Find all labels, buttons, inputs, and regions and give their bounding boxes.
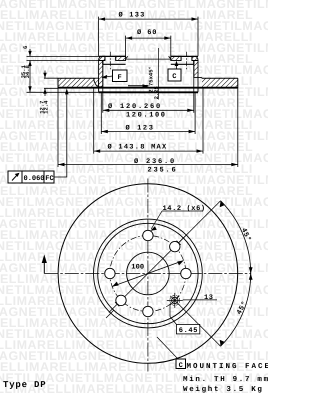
note [C] MOUNTING FACE: [176, 359, 271, 371]
svg-text:12.4: 12.4: [43, 100, 50, 114]
angular dimension arc with 45deg labels: [220, 201, 253, 346]
bolt hole 45deg: [170, 241, 180, 251]
svg-text:FC: FC: [45, 175, 53, 183]
svg-text:Ø 236.0: Ø 236.0: [134, 158, 176, 166]
friction band bottom / interior floor line: [58, 87, 238, 89]
svg-text:14.2 (x6): 14.2 (x6): [163, 204, 206, 213]
svg-text:Type DP: Type DP: [3, 380, 46, 390]
drum outer edges: [99, 77, 198, 92]
hat circle Ø133: [98, 223, 198, 323]
svg-text:Min. TH 9.7 mm: Min. TH 9.7 mm: [183, 375, 268, 384]
bolt hole 180deg: [105, 268, 115, 278]
friction band left (hatched): [58, 78, 94, 88]
bore circle Ø60: [127, 252, 170, 295]
svg-text:235.6: 235.6: [148, 166, 178, 174]
hat wall right (hatched) + shelf: [194, 61, 202, 79]
dimension 6 (flange thickness): [22, 46, 99, 67]
diagonal 45deg dimension line through holes with arrows: [109, 235, 187, 313]
bolt hole edges in flange: [105, 56, 192, 60]
svg-text:100: 100: [131, 263, 144, 271]
vertical centerline: [147, 179, 149, 372]
dimension Ø236.0/235.6: [58, 158, 238, 174]
svg-text:C: C: [172, 73, 177, 81]
svg-text:Ø 133: Ø 133: [119, 12, 146, 20]
mounting flange left (hatched): [99, 56, 126, 60]
dimension 12.7/12.4 (disc thickness): [39, 71, 58, 114]
drum bottom lip: [99, 91, 198, 93]
mounting flange right (hatched): [171, 56, 198, 60]
radial extension -45deg: [179, 304, 221, 346]
svg-text:Ø 120.260: Ø 120.260: [108, 103, 162, 111]
svg-text:Ø 123: Ø 123: [126, 124, 155, 132]
extension lines down from section: [103, 64, 194, 113]
svg-text:F: F: [118, 74, 123, 82]
bolt hole 270deg: [143, 306, 153, 316]
datum box F: [101, 70, 127, 82]
bore chamfer bottom line: [126, 58, 171, 60]
chamfer dimension 2.75x45 / 2.25: [128, 48, 160, 100]
horizontal centerline: [44, 273, 251, 275]
svg-text:13: 13: [204, 294, 214, 302]
datum box C: [168, 61, 181, 82]
bolt hole centerline left: [109, 52, 111, 70]
dimension Ø143.8 MAX: [94, 144, 203, 153]
svg-text:0.060: 0.060: [24, 175, 45, 183]
svg-text:2.25: 2.25: [153, 85, 160, 99]
flange top thick line: [99, 55, 198, 57]
dimension Ø133: [99, 12, 198, 57]
svg-text:6: 6: [22, 46, 29, 49]
bolt hole centerline right: [186, 52, 188, 70]
bolt hole 0deg: [181, 268, 191, 278]
friction inner circle Ø143.8: [93, 219, 202, 328]
dimension Ø120.260/120.100: [103, 103, 194, 119]
label 14.2 (x6) with leader: [150, 204, 206, 231]
outer circle Ø236: [58, 184, 238, 364]
radial extension 45deg: [179, 201, 221, 243]
label 6.45 in box with leader: [170, 304, 200, 335]
bolt hole 90deg: [143, 230, 153, 240]
svg-text:34.8: 34.8: [24, 64, 31, 78]
dimension 35.1/34.8 (overall height): [20, 61, 99, 93]
bore walls with chamfer: [126, 56, 171, 60]
service hole (star hatched): [167, 293, 183, 308]
svg-text:Ø 60: Ø 60: [137, 29, 157, 37]
bolt circle Ø100 (dash-dot): [110, 236, 186, 312]
svg-text:C: C: [179, 362, 184, 370]
GD&T runout feature control frame: [8, 88, 69, 183]
stub parallel to diagonal at lower-left: [106, 310, 114, 318]
register step under flange: [103, 61, 194, 65]
label 13 with leader: [183, 294, 217, 302]
svg-text:MOUNTING FACE: MOUNTING FACE: [187, 362, 269, 371]
svg-text:120.100: 120.100: [126, 112, 167, 120]
direction arrow (left): [42, 255, 47, 274]
bolt hole 225deg: [116, 295, 126, 305]
hat web left (hatched wedge): [94, 78, 99, 87]
hat wall left (hatched): [99, 61, 103, 87]
svg-text:Weight 3.5 Kg: Weight 3.5 Kg: [183, 385, 264, 394]
svg-text:Ø 143.8 MAX: Ø 143.8 MAX: [108, 144, 168, 152]
dimension 100 bolt circle (shallow diameter line): [112, 261, 183, 287]
dimension Ø60: [126, 29, 171, 56]
svg-text:6.45: 6.45: [179, 327, 198, 335]
leader from mounting face note to hub face: [157, 337, 178, 359]
friction band right (hatched): [202, 78, 238, 88]
dimension Ø123: [101, 124, 195, 133]
